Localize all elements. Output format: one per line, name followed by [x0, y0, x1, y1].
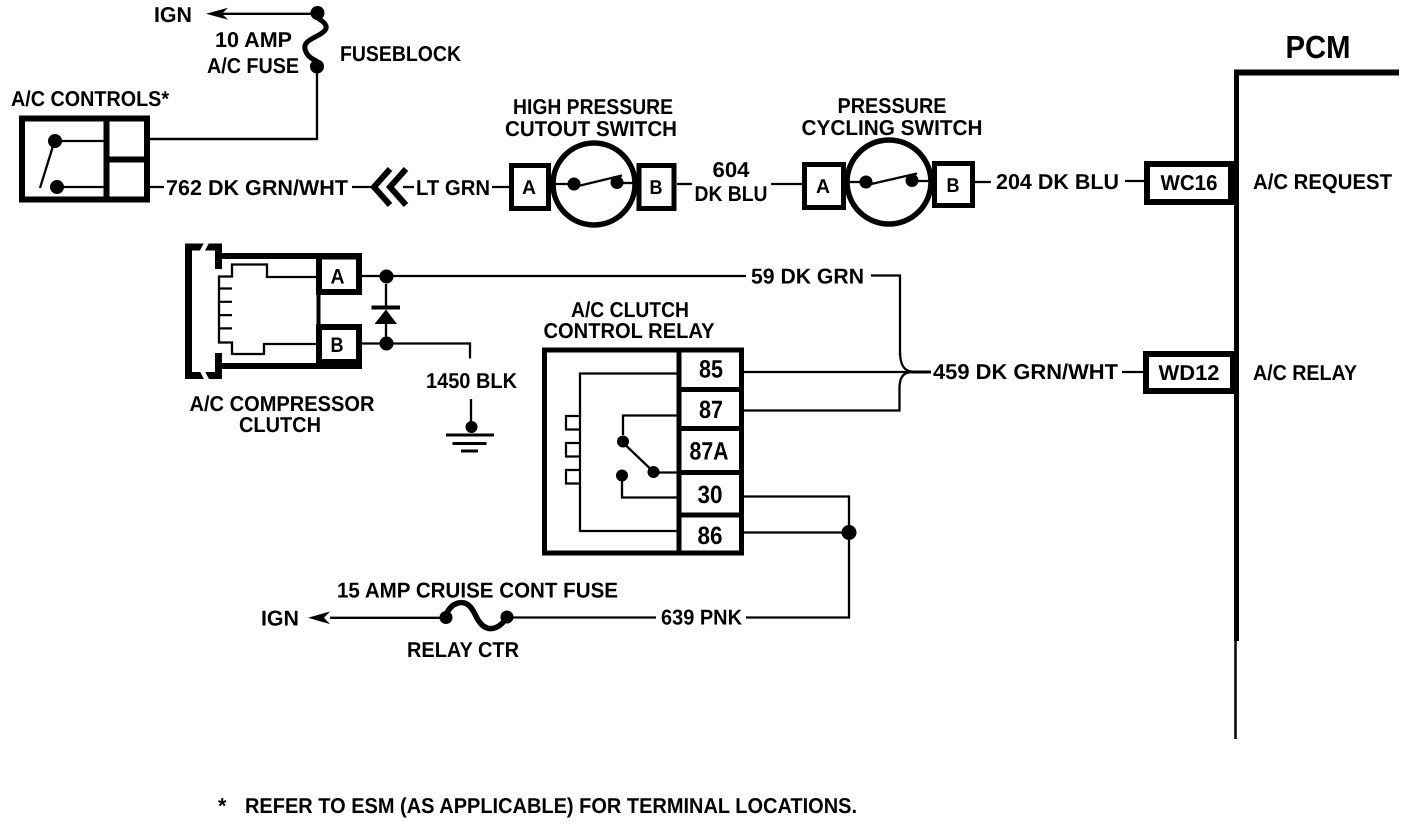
- wire stub 762: [150, 186, 164, 188]
- ground G103 symbol: [446, 435, 494, 451]
- A/C compressor clutch bracket: [189, 247, 223, 376]
- wire 59 DK GRN to corner: [871, 276, 900, 356]
- A/C controls switch S1 outer box: [22, 119, 147, 200]
- svg-text:85: 85: [699, 356, 723, 384]
- fuse dot right: [501, 611, 514, 624]
- wire dash: [403, 186, 414, 188]
- high pressure cutout switch terminal A box: [512, 166, 549, 209]
- coil body right edge thick segment: [317, 294, 321, 326]
- svg-text:1450 BLK: 1450 BLK: [426, 369, 517, 393]
- wire clutch B to 1450 BLK: [362, 344, 470, 359]
- diode D1 lead top: [385, 284, 387, 306]
- relay coil wire to 86: [580, 484, 679, 531]
- wire dash: [352, 186, 372, 188]
- svg-text:FUSEBLOCK: FUSEBLOCK: [340, 42, 461, 66]
- relay terminal column divider: [677, 350, 682, 553]
- connector WC16 box: [1147, 164, 1231, 202]
- contact dot left: [860, 176, 873, 189]
- wire 639 to fuse: [513, 616, 656, 618]
- relay coil wire from 85: [580, 374, 679, 417]
- clutch terminal B box: [319, 327, 359, 362]
- svg-text:59 DK GRN: 59 DK GRN: [751, 265, 864, 289]
- arrowhead to IGN bottom: [308, 612, 330, 625]
- stub contact to B: [918, 180, 935, 182]
- bracket claw slash top (white cut): [197, 240, 208, 261]
- svg-text:87: 87: [699, 396, 723, 424]
- svg-text:IGN: IGN: [154, 3, 192, 27]
- svg-text:A: A: [816, 176, 830, 198]
- wire to cycling switch: [771, 183, 803, 185]
- switch blade: [576, 176, 622, 187]
- bracket stub bottom: [215, 353, 222, 373]
- relay contact dot 87: [617, 436, 629, 448]
- PCM vertical line thin: [1234, 641, 1237, 739]
- wire clutch A to 59 DK GRN: [362, 275, 746, 277]
- diode lead bottom: [385, 324, 387, 338]
- wire upper contact: [55, 140, 104, 142]
- wire 85 to junction: [744, 371, 911, 373]
- relay wire to 30: [622, 481, 679, 498]
- wire stub 604: [677, 183, 692, 185]
- svg-text:IGN: IGN: [261, 607, 299, 631]
- relay terminal divider 87A/30: [679, 470, 742, 475]
- switch blade: [869, 174, 917, 185]
- svg-text:B: B: [331, 334, 344, 357]
- wire to ground: [470, 399, 472, 422]
- relay terminal divider 87/87A: [679, 426, 742, 431]
- svg-text:204 DK BLU: 204 DK BLU: [996, 170, 1119, 194]
- bracket stub top: [215, 250, 222, 269]
- svg-text:CONTROL RELAY: CONTROL RELAY: [544, 319, 715, 343]
- relay K1 outer box: [545, 350, 742, 553]
- connector bottom bar: [222, 363, 362, 369]
- diode cathode bar: [372, 306, 401, 310]
- fuse dot left: [440, 611, 453, 624]
- svg-text:459 DK GRN/WHT: 459 DK GRN/WHT: [933, 360, 1118, 384]
- svg-text:*: *: [218, 794, 227, 818]
- svg-text:PRESSURE: PRESSURE: [838, 94, 947, 118]
- relay coil vertical: [579, 416, 581, 484]
- compressor clutch coil body outline: [219, 265, 319, 355]
- svg-text:A: A: [522, 177, 536, 199]
- wire to WD12: [1122, 371, 1143, 373]
- svg-text:CYCLING SWITCH: CYCLING SWITCH: [802, 116, 983, 140]
- junction dot diode bottom: [380, 337, 394, 351]
- brace curve top: [900, 353, 912, 372]
- svg-text:87A: 87A: [690, 438, 729, 466]
- wire fuse to IGN: [330, 617, 441, 619]
- fuse 15 AMP CRUISE CONT squiggle: [446, 603, 507, 629]
- contact dot right: [906, 174, 919, 187]
- ground dot: [466, 421, 478, 433]
- relay coil comb: [566, 416, 580, 484]
- wire IGN to fuseblock: [222, 13, 314, 15]
- connector WD12 box: [1146, 354, 1233, 391]
- terminal B box: [935, 164, 973, 206]
- svg-text:15 AMP CRUISE CONT FUSE: 15 AMP CRUISE CONT FUSE: [337, 579, 618, 603]
- svg-text:639 PNK: 639 PNK: [661, 606, 742, 630]
- relay terminal divider 30/86: [679, 513, 742, 518]
- stub A to contact: [551, 183, 568, 185]
- svg-text:CLUTCH: CLUTCH: [239, 413, 321, 437]
- svg-text:604: 604: [713, 158, 750, 182]
- wire lower contact: [57, 186, 104, 188]
- svg-text:WD12: WD12: [1159, 361, 1220, 385]
- wire A/C controls to fuse: [150, 138, 317, 140]
- contact dot right: [611, 176, 624, 189]
- connector top bar: [222, 253, 362, 259]
- svg-text:86: 86: [698, 522, 723, 550]
- contact dot left: [568, 178, 581, 191]
- terminal B box: [639, 166, 674, 209]
- bracket claw slash bottom (white cut): [197, 361, 208, 382]
- wire fuse to A/C controls: [150, 72, 317, 139]
- relay wire from 87: [623, 416, 679, 436]
- wire dash to 459 label: [911, 371, 931, 374]
- pressure cycling switch body circle: [847, 140, 931, 224]
- chevron splice symbol 1: [374, 169, 390, 205]
- relay wire to 87A: [659, 471, 679, 473]
- wire 86 to junction: [744, 531, 849, 533]
- wire to WC16: [1125, 180, 1144, 182]
- svg-text:CUTOUT SWITCH: CUTOUT SWITCH: [505, 117, 677, 141]
- relay contact dot 87A: [648, 466, 660, 478]
- svg-text:PCM: PCM: [1286, 29, 1351, 65]
- svg-text:RELAY CTR: RELAY CTR: [407, 638, 519, 662]
- svg-text:A/C FUSE: A/C FUSE: [207, 54, 299, 78]
- svg-text:A/C RELAY: A/C RELAY: [1253, 361, 1357, 385]
- high pressure cutout switch body circle: [553, 143, 635, 225]
- brace curve bottom: [900, 372, 913, 387]
- PCM top horizontal line: [1234, 70, 1399, 76]
- svg-text:B: B: [947, 175, 960, 197]
- fuse 10 AMP A/C FUSE squiggle: [305, 18, 326, 61]
- svg-text:A: A: [331, 266, 345, 289]
- svg-text:762 DK GRN/WHT: 762 DK GRN/WHT: [166, 176, 348, 200]
- contact dot lower: [50, 180, 64, 194]
- chevron splice symbol 2: [390, 169, 406, 205]
- wire to high pressure switch A: [492, 186, 510, 188]
- pressure cycling switch terminal A box: [805, 165, 844, 208]
- diode triangle: [375, 310, 398, 325]
- svg-text:HIGH PRESSURE: HIGH PRESSURE: [513, 95, 673, 119]
- svg-text:A/C CONTROLS*: A/C CONTROLS*: [11, 87, 170, 111]
- wire 30 to junction: [744, 497, 849, 527]
- A/C controls divider vertical: [104, 118, 110, 200]
- coil comb teeth: [219, 289, 232, 329]
- junction dot fuse bottom: [310, 60, 324, 74]
- svg-text:A/C REQUEST: A/C REQUEST: [1253, 170, 1392, 194]
- wire 87 up to junction: [744, 387, 900, 411]
- relay contact dot 30: [616, 470, 628, 482]
- clutch terminal A box: [319, 257, 359, 293]
- svg-text:REFER TO ESM (AS APPLICABLE) F: REFER TO ESM (AS APPLICABLE) FOR TERMINA…: [245, 794, 857, 818]
- relay terminal divider 85/87: [679, 387, 742, 392]
- contact dot upper: [48, 134, 62, 148]
- svg-text:30: 30: [698, 481, 723, 509]
- svg-text:DK BLU: DK BLU: [695, 182, 768, 206]
- junction dot 639: [842, 525, 857, 540]
- svg-text:LT GRN: LT GRN: [416, 176, 490, 200]
- relay armature: [627, 446, 651, 469]
- PCM vertical line thick: [1234, 70, 1239, 642]
- junction dot diode top: [380, 270, 394, 284]
- svg-text:WC16: WC16: [1161, 171, 1218, 195]
- arrowhead to IGN: [206, 8, 228, 20]
- svg-text:B: B: [650, 177, 663, 199]
- stub A to contact: [846, 181, 860, 183]
- wire junction down and left: [746, 533, 849, 618]
- wire stub 204: [975, 181, 991, 183]
- junction dot fuse top: [311, 6, 325, 20]
- stub contact to B: [623, 182, 639, 184]
- switch lever: [40, 146, 53, 188]
- A/C controls divider horizontal: [104, 157, 147, 163]
- svg-text:10 AMP: 10 AMP: [215, 28, 292, 52]
